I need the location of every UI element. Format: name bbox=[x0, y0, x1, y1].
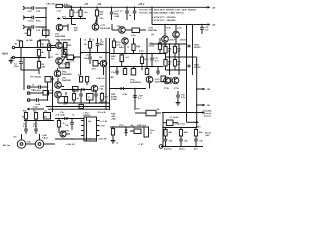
svg-text:(L4x7am: (L4x7am bbox=[164, 148, 172, 150]
svg-text:+58: +58 bbox=[212, 7, 216, 9]
label h127 bbox=[119, 124, 147, 127]
junction dots bbox=[71, 7, 136, 9]
svg-text:2SA194b: 2SA194b bbox=[148, 29, 158, 32]
label 4k5 bbox=[139, 50, 144, 53]
svg-text:470u: 470u bbox=[36, 20, 42, 23]
wire v46 bbox=[47, 86, 49, 101]
svg-text:1b: 1b bbox=[127, 47, 130, 49]
svg-text:1,0mu: 1,0mu bbox=[28, 21, 35, 23]
arrow -58a bbox=[196, 88, 210, 91]
svg-text:c VT16,VT17 - 2SA1940: c VT16,VT17 - 2SA1940 bbox=[152, 19, 176, 22]
label VT9t bbox=[62, 78, 72, 83]
svg-text:100n: 100n bbox=[14, 66, 19, 68]
component box VT1c bbox=[64, 50, 67, 55]
svg-text:2SA1085: 2SA1085 bbox=[62, 79, 72, 82]
wire h1465 bbox=[161, 146, 203, 148]
wire h89 bbox=[61, 89, 90, 91]
wire y44 bbox=[150, 43, 187, 45]
label 4B bbox=[111, 76, 115, 79]
wire vas col3 bbox=[109, 38, 111, 110]
transistor VT1 bbox=[49, 42, 62, 49]
capacitor C8t bbox=[96, 38, 103, 53]
capacitor Cb1 bbox=[188, 45, 202, 50]
label 1k2 bbox=[99, 57, 103, 59]
label VT11t bbox=[148, 28, 158, 33]
svg-text:4B?: 4B? bbox=[111, 76, 115, 79]
svg-text:A4b: A4b bbox=[169, 131, 173, 134]
wire rail o2 bbox=[178, 44, 180, 75]
wire h18 bbox=[63, 18, 86, 20]
svg-text:C12: C12 bbox=[36, 30, 41, 32]
wire rail o4 bbox=[192, 25, 194, 76]
wire in upper bbox=[12, 46, 55, 48]
svg-text:VMb 2SA1085D: VMb 2SA1085D bbox=[56, 39, 72, 42]
resistor R1 bbox=[15, 40, 23, 48]
wire h1275 bbox=[163, 127, 197, 129]
svg-text:C4b: C4b bbox=[50, 89, 55, 92]
svg-text:A4b: A4b bbox=[199, 131, 203, 134]
svg-text:CEA-HGT: CEA-HGT bbox=[155, 81, 165, 84]
capacitor C12 bbox=[32, 25, 34, 29]
label +57 bbox=[84, 3, 102, 6]
label gnd marks bbox=[151, 34, 155, 36]
component box VT1b bbox=[64, 43, 73, 49]
input terminal J1 bbox=[23, 7, 26, 10]
transistor VT9 bbox=[55, 78, 64, 88]
wire bot out bbox=[166, 69, 187, 71]
svg-text:1b: 1b bbox=[84, 40, 87, 42]
junction mid bbox=[89, 52, 107, 54]
svg-text:4u: 4u bbox=[77, 97, 80, 100]
svg-text:220: 220 bbox=[42, 67, 46, 69]
transistor VT3b bbox=[54, 68, 61, 77]
wire vt13 bbox=[135, 83, 150, 110]
capacitor C19 bbox=[120, 7, 129, 20]
label C5a bbox=[100, 18, 105, 20]
wire branch bbox=[152, 7, 216, 26]
svg-text:b +1-4b: b +1-4b bbox=[101, 120, 109, 123]
resistor R31 bbox=[173, 44, 182, 57]
label t7a bbox=[149, 43, 156, 48]
resistor R5m bbox=[47, 40, 54, 58]
svg-text:A4b: A4b bbox=[184, 131, 188, 134]
wire bbox=[26, 17, 31, 19]
wire bbox=[35, 17, 46, 19]
svg-text:(1b: (1b bbox=[151, 34, 155, 36]
terminal t4 bbox=[28, 86, 34, 88]
svg-text:5n?: 5n? bbox=[138, 98, 142, 100]
svg-text:-17B: -17B bbox=[101, 126, 106, 128]
wire vtd1 down bbox=[164, 42, 166, 44]
transistor VT5 bbox=[55, 24, 66, 38]
svg-text:+C4b: +C4b bbox=[122, 93, 128, 96]
svg-text:4,5mb: 4,5mb bbox=[149, 45, 156, 48]
wire out node bbox=[166, 56, 193, 58]
svg-text:2SA1085B: 2SA1085B bbox=[55, 35, 66, 38]
capacitor C17m bbox=[150, 54, 159, 67]
label L1 bbox=[170, 117, 179, 119]
wire cross1 bbox=[62, 47, 67, 56]
wire h1205 bbox=[24, 120, 54, 122]
svg-text:+7 B?: +7 B? bbox=[138, 144, 144, 146]
resistor R52 bbox=[194, 128, 203, 139]
capacitor C28 bbox=[94, 92, 98, 104]
svg-text:C1b: C1b bbox=[111, 72, 116, 74]
input terminal J3 bbox=[23, 26, 26, 29]
capacitor C41 bbox=[179, 139, 188, 146]
resistor R26 bbox=[33, 98, 48, 106]
svg-text:b VT16,VT17 - 2SC5200: b VT16,VT17 - 2SC5200 bbox=[152, 17, 176, 19]
svg-text:4,7n: 4,7n bbox=[155, 60, 160, 63]
resistor R50 bbox=[164, 128, 173, 139]
IC pins right bbox=[97, 121, 100, 136]
terminal t5 bbox=[28, 92, 34, 94]
label R28 bbox=[111, 93, 128, 101]
capacitor C22b bbox=[33, 89, 41, 93]
svg-text:(4,2am: (4,2am bbox=[179, 148, 185, 150]
resistor R7 feed bbox=[56, 3, 72, 8]
svg-text:C4b: C4b bbox=[27, 141, 31, 144]
svg-text:+57: +57 bbox=[84, 3, 89, 6]
label LS bbox=[138, 144, 144, 146]
resistor R6c bbox=[66, 63, 69, 69]
wire bbox=[98, 64, 104, 76]
svg-text:4,5m: 4,5m bbox=[139, 50, 144, 53]
label under wire bbox=[23, 123, 36, 129]
relay K1 bbox=[144, 127, 155, 137]
capacitor C13 bbox=[111, 67, 119, 76]
label t7c bbox=[125, 56, 129, 59]
label cs bbox=[30, 76, 42, 79]
svg-text:+C4 +12B: +C4 +12B bbox=[55, 114, 65, 117]
component box B2 bbox=[36, 91, 53, 96]
diode D2 bbox=[81, 88, 84, 91]
svg-text:0u47: 0u47 bbox=[33, 106, 39, 109]
label C18 bbox=[28, 11, 41, 13]
resistor R18 box bbox=[95, 7, 104, 24]
wire bot bbox=[21, 69, 39, 71]
svg-text:C1B C1B: C1B C1B bbox=[46, 4, 55, 6]
svg-text:+63B: +63B bbox=[114, 16, 120, 18]
svg-text:+C4b +5b: +C4b +5b bbox=[96, 77, 105, 80]
wire top mid bbox=[39, 39, 49, 41]
capacitor C8 bbox=[84, 53, 92, 65]
wire vert147 bbox=[146, 38, 148, 67]
svg-text:LM393b: LM393b bbox=[83, 115, 91, 117]
wire h96 bbox=[61, 96, 66, 98]
junction bbox=[45, 7, 47, 28]
svg-text:VT1b: VT1b bbox=[164, 88, 170, 90]
label tile6 bot bbox=[62, 72, 72, 77]
resistor R8 bbox=[70, 7, 80, 24]
svg-text:+1b: +1b bbox=[55, 54, 59, 56]
transistor VT16 bbox=[164, 77, 180, 90]
svg-text:C1?: C1? bbox=[137, 47, 141, 49]
wire vt10 bbox=[124, 44, 126, 54]
svg-text:R17: R17 bbox=[92, 69, 97, 71]
svg-text:+58 V: +58 V bbox=[138, 3, 145, 6]
label c4b470 bbox=[65, 130, 70, 133]
electrolytic CE1 bbox=[17, 134, 25, 148]
capacitor C12r bbox=[133, 96, 144, 101]
svg-text:C1b: C1b bbox=[13, 137, 17, 139]
capacitor C20b bbox=[32, 85, 48, 89]
resistor R40 bbox=[22, 113, 28, 121]
capacitor C2 bbox=[14, 48, 23, 71]
resistor R30 bbox=[164, 44, 173, 57]
svg-text:+C2b: +C2b bbox=[86, 55, 92, 57]
label r12t bbox=[84, 40, 103, 42]
svg-text:1,2n: 1,2n bbox=[205, 30, 210, 32]
transistor VTd1 bbox=[162, 25, 183, 43]
wire mid2 h bbox=[110, 53, 165, 55]
capacitor Cb2 bbox=[188, 65, 202, 70]
capacitor C17 el bbox=[110, 7, 120, 20]
svg-text:+VT7: +VT7 bbox=[100, 25, 106, 27]
ground G3 bbox=[111, 138, 119, 145]
label t14 bbox=[55, 114, 75, 117]
svg-text:C21+: C21+ bbox=[131, 35, 137, 37]
svg-text:-5,7B -5B: -5,7B -5B bbox=[98, 139, 107, 141]
electrolytic CE2 bbox=[35, 134, 43, 148]
component box B4 bbox=[44, 113, 51, 120]
component box M3 bbox=[145, 67, 148, 75]
capacitor C21 bbox=[129, 7, 136, 20]
ground G2 bbox=[176, 100, 181, 105]
svg-text:,J05uF: ,J05uF bbox=[180, 40, 187, 42]
terminal Zb bbox=[159, 145, 163, 149]
label b8r bbox=[86, 55, 92, 57]
svg-text:560: 560 bbox=[74, 30, 78, 32]
wire emitters bbox=[55, 49, 67, 58]
wire vas col2 bbox=[105, 38, 107, 110]
resistor R16 bbox=[112, 38, 121, 54]
svg-text:45b 1ub: 45b 1ub bbox=[3, 144, 11, 147]
capacitor C15 bbox=[200, 25, 209, 35]
label -57-58 bbox=[60, 111, 107, 114]
label caps row bbox=[13, 134, 49, 140]
transistor VTd2 bbox=[173, 25, 180, 45]
wire in lower bbox=[12, 56, 46, 58]
svg-text:+59: +59 bbox=[97, 3, 102, 6]
svg-text:R9: R9 bbox=[84, 44, 88, 46]
resistor R10 bbox=[63, 55, 81, 63]
svg-text:FU2: FU2 bbox=[136, 109, 140, 111]
svg-text:0,1Dn: 0,1Dn bbox=[74, 12, 80, 14]
component box M1 bbox=[123, 67, 126, 75]
label bus top bbox=[46, 4, 55, 6]
notes line4 bbox=[152, 19, 176, 22]
capacitor C42 bbox=[194, 139, 203, 146]
svg-text:VT3: VT3 bbox=[49, 57, 54, 59]
label c1b bbox=[62, 63, 71, 66]
notes line2 bbox=[139, 12, 185, 15]
svg-text:4am: 4am bbox=[194, 148, 198, 150]
power rail +57 bbox=[64, 6, 152, 8]
wire rail o3 bbox=[186, 25, 188, 123]
component box X2 bbox=[125, 28, 146, 33]
svg-text:1b: 1b bbox=[72, 115, 75, 117]
svg-text:MJ15b: MJ15b bbox=[194, 67, 201, 69]
resistor RA2 bbox=[86, 77, 89, 86]
component box M2 bbox=[131, 67, 136, 76]
svg-text:VT1b: VT1b bbox=[174, 88, 180, 90]
svg-text:+C4: +C4 bbox=[125, 56, 129, 59]
svg-text:+4,7bB: +4,7bB bbox=[26, 39, 33, 42]
svg-text:+C4b 1b?: +C4b 1b? bbox=[66, 143, 76, 146]
wire vas col bbox=[80, 38, 82, 75]
capacitor C13b bbox=[156, 67, 160, 76]
resistor R33 bbox=[173, 57, 182, 70]
svg-text:VT1b: VT1b bbox=[166, 28, 172, 30]
IC DA1 bbox=[83, 112, 97, 142]
label VT10b bbox=[130, 80, 142, 85]
label -57-58b bbox=[66, 143, 76, 146]
wire h1125 bbox=[162, 111, 205, 114]
resistor R51 bbox=[179, 128, 188, 139]
wire left drop bbox=[23, 57, 25, 90]
svg-text:7b: 7b bbox=[116, 143, 119, 145]
svg-text:2,2n: 2,2n bbox=[181, 97, 186, 99]
svg-text:1k2: 1k2 bbox=[99, 57, 103, 59]
arrow in bbox=[57, 17, 61, 20]
wire bbox=[26, 26, 31, 28]
resistor RA1 bbox=[78, 74, 83, 83]
component box B3b bbox=[72, 90, 75, 104]
bottom rail mid2 bbox=[48, 108, 110, 110]
resistor R12 bbox=[84, 38, 92, 53]
svg-text:C4b: C4b bbox=[169, 140, 173, 143]
arrow mid bbox=[73, 57, 76, 60]
collector wires bbox=[59, 40, 70, 68]
svg-text:AC: AC bbox=[44, 116, 47, 119]
wire low h bbox=[110, 66, 163, 68]
IC pins left bbox=[81, 121, 84, 136]
label r1 top bbox=[16, 39, 33, 42]
transistor VT3 bbox=[49, 57, 62, 64]
junction bbox=[151, 7, 153, 9]
transistor VT10 bbox=[119, 38, 128, 49]
svg-text:+ C6: + C6 bbox=[56, 11, 61, 13]
transistor VT8 bbox=[100, 60, 107, 67]
component box B8 bbox=[92, 61, 98, 71]
wire cross2 bbox=[62, 54, 67, 63]
svg-text:C4b: C4b bbox=[199, 140, 203, 143]
label film1 bbox=[169, 40, 176, 42]
output arrow bbox=[187, 121, 202, 129]
diode D3 bbox=[121, 87, 124, 90]
label top13 bbox=[23, 110, 48, 113]
label t10tr bbox=[96, 77, 105, 80]
svg-text:4,7: 4,7 bbox=[33, 125, 36, 128]
svg-text:C4b: C4b bbox=[184, 140, 188, 143]
resistor R20c bbox=[72, 25, 79, 33]
capacitor C32 bbox=[34, 121, 38, 135]
svg-text:0,4ban: 0,4ban bbox=[42, 137, 49, 140]
resistor R20m bbox=[140, 54, 149, 71]
label C21b bbox=[131, 35, 137, 37]
ground G1 bbox=[9, 58, 14, 64]
svg-text:LM: LM bbox=[88, 121, 91, 123]
svg-text:2,1: 2,1 bbox=[23, 126, 26, 128]
svg-text:C16: C16 bbox=[36, 11, 41, 13]
wire mid h bbox=[81, 52, 110, 54]
svg-text:R1: R1 bbox=[15, 44, 19, 46]
terminal t6 bbox=[28, 99, 36, 101]
transistor VT13 bbox=[146, 76, 164, 83]
notes line1 bbox=[139, 10, 196, 12]
label input level bbox=[2, 53, 9, 56]
label fu3 bbox=[111, 114, 117, 121]
svg-text:(+4b): (+4b) bbox=[205, 134, 210, 137]
capacitor C40 bbox=[164, 139, 173, 146]
arrow input lower bbox=[27, 106, 44, 111]
wire vt12 down bbox=[57, 98, 59, 103]
resistor R22m bbox=[158, 38, 167, 54]
wire rail o1 bbox=[169, 44, 171, 75]
capacitor C10 bbox=[176, 91, 186, 101]
capacitor C30 bbox=[24, 121, 28, 135]
transistor VT14 bbox=[89, 85, 105, 92]
svg-text:VT5,VT6. 2SA 1085. (2N5568 -: VT5,VT6. 2SA 1085. (2N5568 - C8B5. 2SC17… bbox=[139, 12, 185, 15]
transistor VT9t bbox=[112, 24, 125, 33]
svg-text:C18: C18 bbox=[28, 11, 33, 13]
wire bbox=[26, 7, 31, 9]
wire v52 bbox=[52, 76, 54, 112]
notes line3 bbox=[152, 17, 176, 19]
svg-text:C4b: C4b bbox=[65, 124, 69, 127]
svg-text:x2: x2 bbox=[129, 15, 132, 17]
svg-text:+V1b: +V1b bbox=[177, 28, 183, 30]
label t7d bbox=[127, 47, 141, 49]
label film2 bbox=[180, 40, 187, 42]
wire bbox=[35, 26, 46, 28]
label t7b bbox=[111, 55, 117, 61]
label -5b bbox=[99, 101, 108, 104]
wire h90 bbox=[110, 88, 147, 90]
label icr bbox=[98, 120, 108, 141]
component box T1b bbox=[87, 94, 94, 104]
resistor R27 bbox=[100, 92, 109, 103]
label out3 bbox=[204, 110, 213, 118]
input terminal J2 bbox=[23, 16, 26, 19]
label C14 bbox=[28, 29, 41, 32]
arrow -58b bbox=[196, 104, 210, 107]
label tile6 top bbox=[56, 39, 72, 42]
svg-text:-5B: -5B bbox=[207, 105, 211, 107]
wire h1185 bbox=[55, 118, 84, 120]
label Anh bbox=[62, 16, 67, 19]
wire h139 bbox=[55, 138, 96, 140]
svg-text:-5B: -5B bbox=[207, 89, 211, 91]
label C6 bbox=[56, 11, 61, 13]
svg-text:+58: +58 bbox=[212, 25, 216, 27]
svg-text:+45b: +45b bbox=[111, 118, 117, 121]
resistor R4m bbox=[37, 50, 44, 58]
svg-text:2SA1085D: 2SA1085D bbox=[62, 73, 72, 76]
svg-text:2SA1085Db: 2SA1085Db bbox=[130, 81, 142, 84]
svg-text:T1: T1 bbox=[88, 97, 91, 99]
wire h103 bbox=[58, 102, 110, 104]
svg-text:+C4b 7tanb: +C4b 7tanb bbox=[175, 123, 186, 126]
capacitor C24 bbox=[63, 92, 68, 106]
wire input bus bbox=[45, 7, 47, 38]
bottom rail mid1 bbox=[46, 105, 110, 109]
label caps bbox=[31, 90, 36, 92]
resistor R6m bbox=[37, 58, 45, 75]
svg-text:R1b: R1b bbox=[68, 45, 73, 47]
component box AD2 bbox=[73, 87, 79, 92]
